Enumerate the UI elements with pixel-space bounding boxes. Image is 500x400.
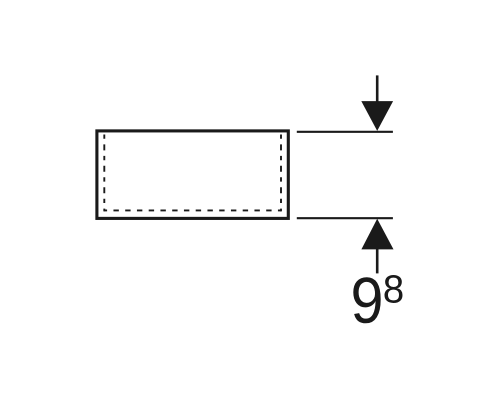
dashed inner outline: left vertical: [103, 135, 105, 212]
top extension line: [297, 131, 393, 133]
top dimension arrow (pointing down): [361, 75, 393, 130]
dashed inner outline: right vertical: [280, 135, 282, 212]
dimension value 9: [353, 277, 380, 323]
dashed inner outline: bottom horizontal: [104, 209, 281, 211]
dimension superscript 8: [384, 275, 402, 303]
bottom extension line: [297, 217, 393, 219]
bottom dimension arrow (pointing up): [361, 219, 393, 274]
product body rectangle (solid outline): [97, 131, 288, 219]
